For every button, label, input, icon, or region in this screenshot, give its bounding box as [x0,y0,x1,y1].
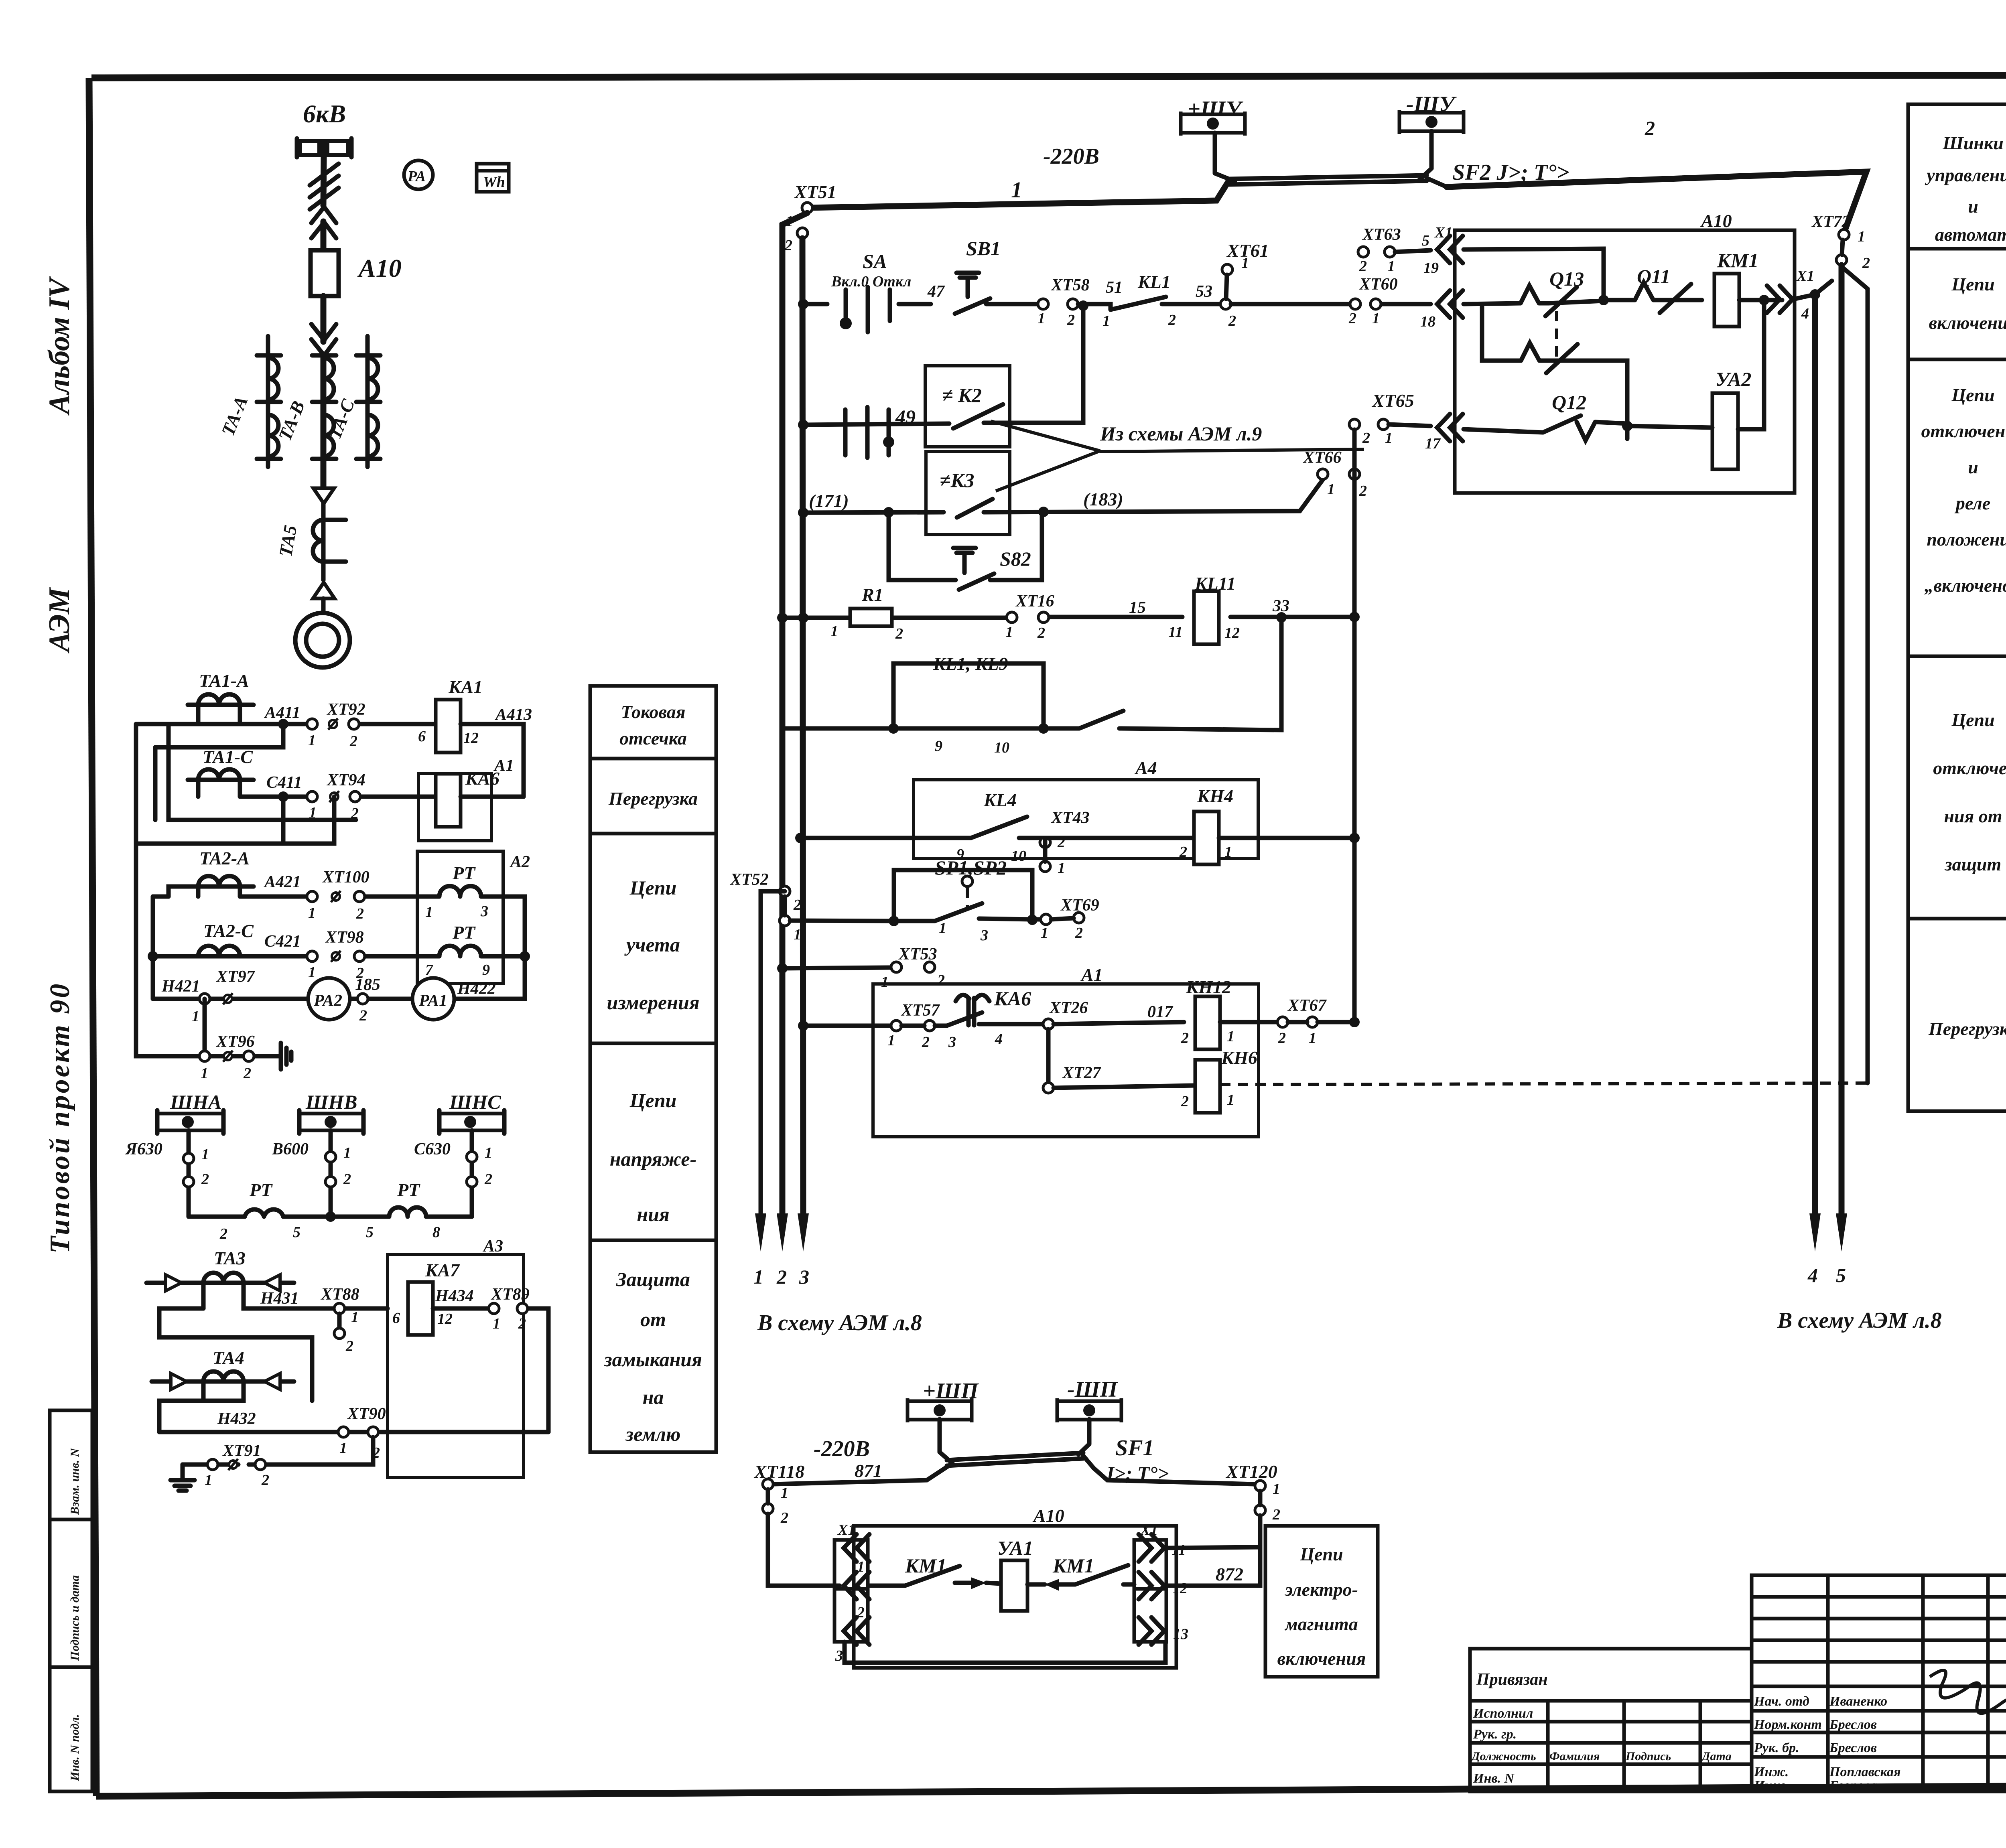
svg-text:2: 2 [1179,844,1187,860]
svg-text:ТА1-С: ТА1-С [203,747,253,767]
svg-text:2: 2 [345,1338,353,1355]
svg-text:1: 1 [425,904,433,921]
svg-text:ТА2-А: ТА2-А [199,848,250,868]
stem В600 [329,1130,333,1217]
svg-text:2: 2 [1359,258,1367,275]
svg-text:1: 1 [339,1440,347,1456]
svg-text:ХТ27: ХТ27 [1062,1064,1102,1082]
contact KL1,KL9 row [782,726,893,731]
svg-text:С421: С421 [264,932,301,951]
ТА4 loop [159,1381,244,1432]
ТА2 loop left [153,886,240,999]
wire 5 drop [1839,265,1845,1216]
svg-text:1: 1 [1224,844,1232,860]
svg-text:19: 19 [1423,260,1439,276]
svg-text:Поплавская: Поплавская [1829,1765,1901,1779]
svg-text:Бреслов: Бреслов [1829,1740,1877,1755]
top-left 6kV feeder [217,99,509,667]
svg-text:Должность: Должность [1470,1750,1536,1763]
resistor R1 row [782,617,1354,618]
terminal ХТ27 and КН6 [1046,1029,1051,1083]
stem Я630 [187,1130,191,1217]
wire Н421 down to XT96 [203,999,207,1056]
svg-text:KL4: KL4 [983,790,1017,810]
svg-text:9: 9 [935,738,942,755]
wire to ХТ60 [1231,302,1431,306]
svg-text:РТ: РТ [452,863,476,883]
svg-text:Н422: Н422 [457,980,496,998]
switch SA lower contact [845,407,889,458]
terminal XT100 [307,891,317,902]
svg-text:электро-: электро- [1284,1579,1358,1600]
svg-text:≠ К2: ≠ К2 [942,384,982,406]
block А2 [417,851,503,984]
svg-text:реле: реле [1954,493,1990,513]
title block mid signature table [1752,1575,2006,1791]
left margin vertical texts [43,276,92,1791]
svg-text:ХТ16: ХТ16 [1015,592,1054,611]
center control circuit top [753,92,1942,1335]
CT ТА5 [313,520,346,562]
svg-text:РТ: РТ [397,1180,420,1200]
svg-text:2: 2 [261,1472,269,1489]
svg-text:и: и [1968,196,1978,217]
svg-text:5: 5 [293,1224,300,1241]
svg-text:РТ: РТ [452,922,476,943]
block А10 bottom [854,1526,1176,1668]
outer loop wires ТА1 [136,724,356,844]
button S82 [889,512,956,580]
svg-text:12: 12 [1224,625,1240,641]
svg-text:РА2: РА2 [313,992,342,1010]
meter Wh [477,164,509,192]
breaker SF2 [1215,133,1235,181]
svg-text:3: 3 [835,1647,843,1664]
svg-text:Цепи: Цепи [629,1089,677,1112]
left wire down [768,1514,840,1586]
svg-text:1: 1 [1309,1030,1316,1047]
svg-text:3: 3 [980,927,988,944]
svg-text:1: 1 [1372,310,1380,327]
svg-text:53: 53 [1196,282,1212,301]
wire row С421 [153,954,428,959]
svg-text:Фамилия: Фамилия [1549,1750,1600,1763]
svg-text:Инж.: Инж. [1754,1765,1789,1779]
pin19 internal wire [1464,249,1604,300]
dashed box К2 [925,366,1010,447]
svg-text:3: 3 [480,903,488,920]
svg-text:ХТ65: ХТ65 [1371,390,1414,411]
wire row Н432 [159,1430,548,1434]
bottom center closing-solenoid circuit [753,1377,1378,1677]
wire ХТ90-2 down to ХТ91 row [266,1437,373,1465]
svg-text:KL1: KL1 [1137,272,1171,292]
svg-text:ХТ90: ХТ90 [347,1405,386,1423]
svg-text:ХТ57: ХТ57 [900,1001,940,1020]
svg-text:ХТ26: ХТ26 [1049,999,1088,1017]
svg-text:9: 9 [482,962,490,978]
svg-text:1: 1 [1273,1481,1280,1497]
contact К2 [953,307,1083,428]
row КА6 [803,1024,891,1028]
block А1 around КА6 [418,773,491,841]
wire КА7 to ХТ89 [433,1308,548,1432]
svg-text:Иваненко: Иваненко [1829,1694,1887,1709]
svg-text:ния от: ния от [1944,806,2002,826]
svg-text:А421: А421 [263,873,301,891]
svg-text:включения: включения [1277,1648,1366,1669]
svg-text:Привязан: Привязан [1476,1670,1548,1689]
svg-text:ХТ100: ХТ100 [322,868,370,886]
svg-text:защит: защит [1944,854,2002,874]
svg-text:Рук. гр.: Рук. гр. [1473,1727,1517,1742]
CT secondary circuits left [136,670,532,1082]
left function column [590,686,716,1452]
svg-text:ТА4: ТА4 [213,1347,244,1368]
block А3 [388,1254,524,1477]
svg-text:1: 1 [308,964,316,981]
svg-text:ХТ98: ХТ98 [325,928,364,947]
svg-text:Защита: Защита [616,1268,690,1290]
svg-text:на: на [643,1386,664,1408]
svg-text:1: 1 [881,974,889,990]
svg-text:ХТ63: ХТ63 [1362,225,1401,244]
svg-text:Я630: Я630 [125,1140,162,1158]
svg-text:Егорова: Егорова [1829,1778,1877,1793]
svg-text:1: 1 [1241,255,1249,272]
svg-text:1: 1 [887,1032,895,1049]
svg-text:≠К3: ≠К3 [940,469,974,491]
stem С630 [470,1130,474,1217]
svg-text:7: 7 [425,962,434,978]
svg-text:Исполнил: Исполнил [1473,1706,1533,1721]
svg-text:1: 1 [1102,312,1110,329]
wire row С411 [240,795,437,799]
right function column [1908,104,2006,1111]
svg-text:КА7: КА7 [425,1260,460,1280]
svg-text:Подпись: Подпись [1625,1750,1671,1763]
svg-text:S82: S82 [1000,548,1031,570]
svg-text:2: 2 [922,1034,930,1051]
svg-text:включения: включения [1929,312,2006,333]
row 49 to К2 [803,424,949,425]
svg-text:2: 2 [895,625,903,642]
svg-text:Шинки: Шинки [1942,133,2004,153]
contact Q13 auxiliary parallel [1482,304,1627,439]
svg-text:5: 5 [1836,1264,1846,1286]
svg-text:КМ1: КМ1 [1717,249,1758,272]
ammeter РА1 [412,978,454,1020]
svg-text:15: 15 [1129,598,1146,617]
terminal XT98 [307,951,317,962]
connector X1 pin4 out [1767,286,1793,313]
svg-text:4: 4 [1801,305,1809,322]
svg-text:11: 11 [1168,624,1183,641]
svg-text:В600: В600 [272,1140,309,1158]
dashed box К3 [926,452,1010,535]
svg-text:ХТ94: ХТ94 [326,771,365,789]
svg-text:1: 1 [343,1144,351,1161]
terminal ХТ118 [763,1479,773,1489]
wire to КН6 dashed row [1843,268,1868,1083]
svg-text:А413: А413 [494,706,532,724]
svg-text:Норм.конт: Норм.конт [1754,1717,1822,1732]
svg-text:Нач. отд: Нач. отд [1754,1694,1809,1709]
svg-text:Цепи: Цепи [1299,1544,1343,1564]
svg-text:А10: А10 [1700,211,1732,231]
junction right bus [520,951,530,962]
hatch marks on feeder [310,164,339,209]
svg-text:отключе-: отключе- [1933,758,2006,778]
dots on center-right bus [1349,1017,1360,1027]
svg-text:УА2: УА2 [1716,368,1751,390]
center middle relay rows [729,573,1868,1216]
svg-text:Инж.: Инж. [1754,1778,1789,1793]
svg-text:Бреслов: Бреслов [1829,1717,1877,1732]
svg-text:1: 1 [1858,228,1865,245]
svg-text:Инв. N: Инв. N [1473,1771,1515,1786]
svg-text:В схему АЭМ л.8: В схему АЭМ л.8 [1777,1308,1942,1333]
svg-text:ХТ96: ХТ96 [215,1033,255,1051]
left sidebar box Инв.№ подл. [50,1667,92,1791]
svg-text:SB1: SB1 [966,237,1001,260]
SA row wire [803,302,931,306]
ammeter РА2 [308,978,350,1020]
svg-text:2: 2 [1359,483,1367,499]
svg-text:1: 1 [351,1309,359,1326]
svg-text:РА: РА [407,168,426,185]
svg-text:6: 6 [418,728,426,745]
svg-text:КН6: КН6 [1221,1047,1257,1068]
svg-text:ХТ88: ХТ88 [320,1285,359,1304]
voltage row with reactors [189,1215,472,1219]
svg-text:Подпись и дата: Подпись и дата [68,1575,81,1661]
svg-text:С411: С411 [266,773,302,792]
ground symbol [281,1043,291,1069]
svg-text:2: 2 [1278,1030,1286,1047]
arrows 4 5 [1809,1213,1821,1252]
svg-text:2: 2 [1181,1030,1189,1047]
dashed row from КН6 [1220,1083,1868,1085]
svg-text:3: 3 [948,1034,956,1051]
svg-text:ХТ58: ХТ58 [1050,276,1090,294]
svg-text:2: 2 [243,1065,251,1082]
svg-text:10: 10 [994,739,1009,756]
connector X1 pin18 [1437,290,1463,318]
svg-text:2: 2 [1862,255,1870,272]
svg-text:Н432: Н432 [217,1410,256,1428]
svg-text:Цепи: Цепи [629,876,677,899]
ТА3 loop [203,1283,260,1308]
svg-text:SP1,SP2: SP1,SP2 [935,856,1007,879]
svg-text:1: 1 [1227,1091,1234,1108]
svg-text:Взам. инв. N: Взам. инв. N [68,1448,81,1515]
svg-text:185: 185 [355,976,380,994]
cable funnel triangle up [313,582,335,598]
svg-text:6кВ: 6кВ [303,99,346,128]
motor M [295,613,350,667]
svg-text:2: 2 [1067,312,1075,329]
wire trunk through CTs [321,355,327,488]
svg-text:1: 1 [1387,258,1395,275]
svg-text:1: 1 [753,1266,763,1288]
svg-text:Инв. N подл.: Инв. N подл. [68,1714,81,1781]
svg-text:ХТ120: ХТ120 [1225,1461,1277,1482]
svg-text:1: 1 [830,623,838,640]
svg-text:А2: А2 [509,853,530,871]
svg-text:1: 1 [485,1144,492,1161]
svg-text:РА1: РА1 [418,992,447,1010]
wire row А411 [198,722,437,726]
wire [321,503,326,580]
svg-text:Альбом IV: Альбом IV [43,276,76,416]
wire [321,296,327,342]
svg-text:УА1: УА1 [997,1537,1033,1559]
svg-text:1: 1 [939,920,946,937]
wire loop ТА1-А primary [198,705,240,724]
left sidebar box Взам.инв.№ [50,1410,92,1519]
wire row Н431 [244,1306,388,1311]
svg-text:ХТ66: ХТ66 [1302,448,1342,467]
svg-text:ХТ67: ХТ67 [1287,996,1327,1015]
svg-text:ТА3: ТА3 [214,1248,246,1268]
CT ТА-А [257,336,281,467]
svg-text:2: 2 [780,1509,788,1526]
svg-text:5: 5 [1422,232,1429,249]
svg-text:1: 1 [1005,624,1013,641]
svg-text:5: 5 [366,1224,374,1241]
svg-text:1: 1 [1227,1028,1234,1045]
svg-text:ТА2-С: ТА2-С [203,921,254,941]
svg-text:ШНА: ШНА [170,1091,222,1113]
svg-text:2: 2 [793,897,801,913]
box А10 [1455,230,1795,493]
svg-text:А3: А3 [482,1237,503,1256]
junction ШНВ bottom [325,1211,336,1222]
ammeter PA [404,160,433,189]
svg-text:Перегрузка: Перегрузка [608,788,698,809]
svg-text:2: 2 [356,905,364,922]
center-right vertical bus [1352,430,1357,1022]
svg-text:KL1, KL9: KL1, KL9 [933,653,1008,674]
svg-text:SA: SA [863,250,887,272]
label column box [590,686,716,1452]
svg-text:ШНВ: ШНВ [305,1091,357,1113]
connector X1 pin19 [1437,236,1463,263]
cable funnel triangle [313,488,334,503]
wire row ХТ96 to ground [136,844,281,1056]
left drop wire 2 [802,238,803,1216]
wire feeder drop [323,155,324,205]
svg-text:1: 1 [1011,178,1022,203]
svg-text:„включено": „включено" [1924,575,2006,596]
svg-text:Н434: Н434 [435,1287,474,1305]
svg-text:КА6: КА6 [465,768,499,789]
svg-text:положения: положения [1927,529,2006,550]
svg-text:учета: учета [624,933,680,956]
svg-text:2: 2 [857,1604,865,1621]
block А4 [914,780,1258,858]
svg-text:ХТ118: ХТ118 [753,1461,804,1482]
svg-text:2: 2 [1075,925,1083,941]
svg-text:Цепи: Цепи [1951,274,1994,294]
svg-text:1: 1 [493,1315,500,1332]
svg-text:1: 1 [1038,310,1045,327]
svg-text:49: 49 [895,406,916,428]
label box Цепи электромагнита включения [1265,1526,1378,1677]
block А1 [873,984,1259,1137]
svg-text:управления: управления [1925,165,2006,185]
disconnect chevron up [311,207,336,238]
mechanical link dashed [1555,311,1558,361]
svg-text:872: 872 [1216,1564,1243,1584]
breaker A10 [311,250,339,296]
svg-text:-220В: -220В [1043,144,1099,169]
svg-text:2: 2 [1168,312,1176,329]
svg-text:1: 1 [1385,430,1393,446]
svg-text:2: 2 [1272,1506,1280,1523]
svg-text:отключения: отключения [1921,421,2006,441]
svg-text:R1: R1 [861,584,883,605]
svg-text:от: от [640,1308,666,1331]
wire row А421 [240,895,428,899]
disconnect chevron down [311,324,336,355]
svg-text:ХТ43: ХТ43 [1050,809,1090,827]
CT ТА-В [312,355,336,459]
svg-text:ХТ51: ХТ51 [794,182,837,202]
svg-text:ХТ60: ХТ60 [1358,275,1398,294]
svg-text:2: 2 [776,1266,787,1288]
svg-text:2: 2 [1348,310,1356,327]
svg-text:А10: А10 [1032,1505,1064,1526]
svg-text:КН4: КН4 [1197,786,1233,806]
junction left bus ТА2 [148,951,158,962]
svg-text:1: 1 [1058,860,1065,876]
svg-text:Типовой проект 90: Типовой проект 90 [45,982,75,1254]
svg-text:2: 2 [359,1007,367,1024]
svg-text:автомат: автомат [1935,224,2006,245]
svg-text:1: 1 [201,1065,208,1082]
svg-text:(171): (171) [809,491,849,511]
svg-text:Вкл.0 Откл: Вкл.0 Откл [831,273,911,290]
svg-text:1: 1 [781,1485,788,1501]
svg-text:1: 1 [1041,925,1048,941]
svg-text:2: 2 [937,972,945,989]
svg-text:А10: А10 [357,254,402,282]
svg-text:18: 18 [1420,313,1435,330]
svg-text:С630: С630 [414,1140,451,1158]
CT ТА-С [356,336,380,467]
relay КА6 [436,774,461,827]
svg-text:1: 1 [308,732,316,749]
svg-text:1: 1 [1327,481,1335,498]
svg-text:КА6: КА6 [994,987,1031,1010]
svg-text:измерения: измерения [607,991,699,1014]
wire КА6 right [461,795,524,799]
voltage circuits and ground protection [125,1091,548,1491]
svg-text:напряже-: напряже- [610,1148,696,1170]
svg-text:ШНС: ШНС [449,1091,501,1113]
svg-text:13: 13 [1173,1626,1188,1643]
svg-text:17: 17 [1425,435,1441,452]
svg-text:12: 12 [463,730,479,747]
wire row Н421 with ammeters [153,956,525,999]
bottom loop pin3 to pin13 [845,1642,1165,1663]
wire 4 drop from pin4 [1812,294,1818,1216]
svg-text:2: 2 [784,237,792,254]
ground [171,1465,195,1491]
svg-text:-ШП: -ШП [1067,1377,1118,1402]
